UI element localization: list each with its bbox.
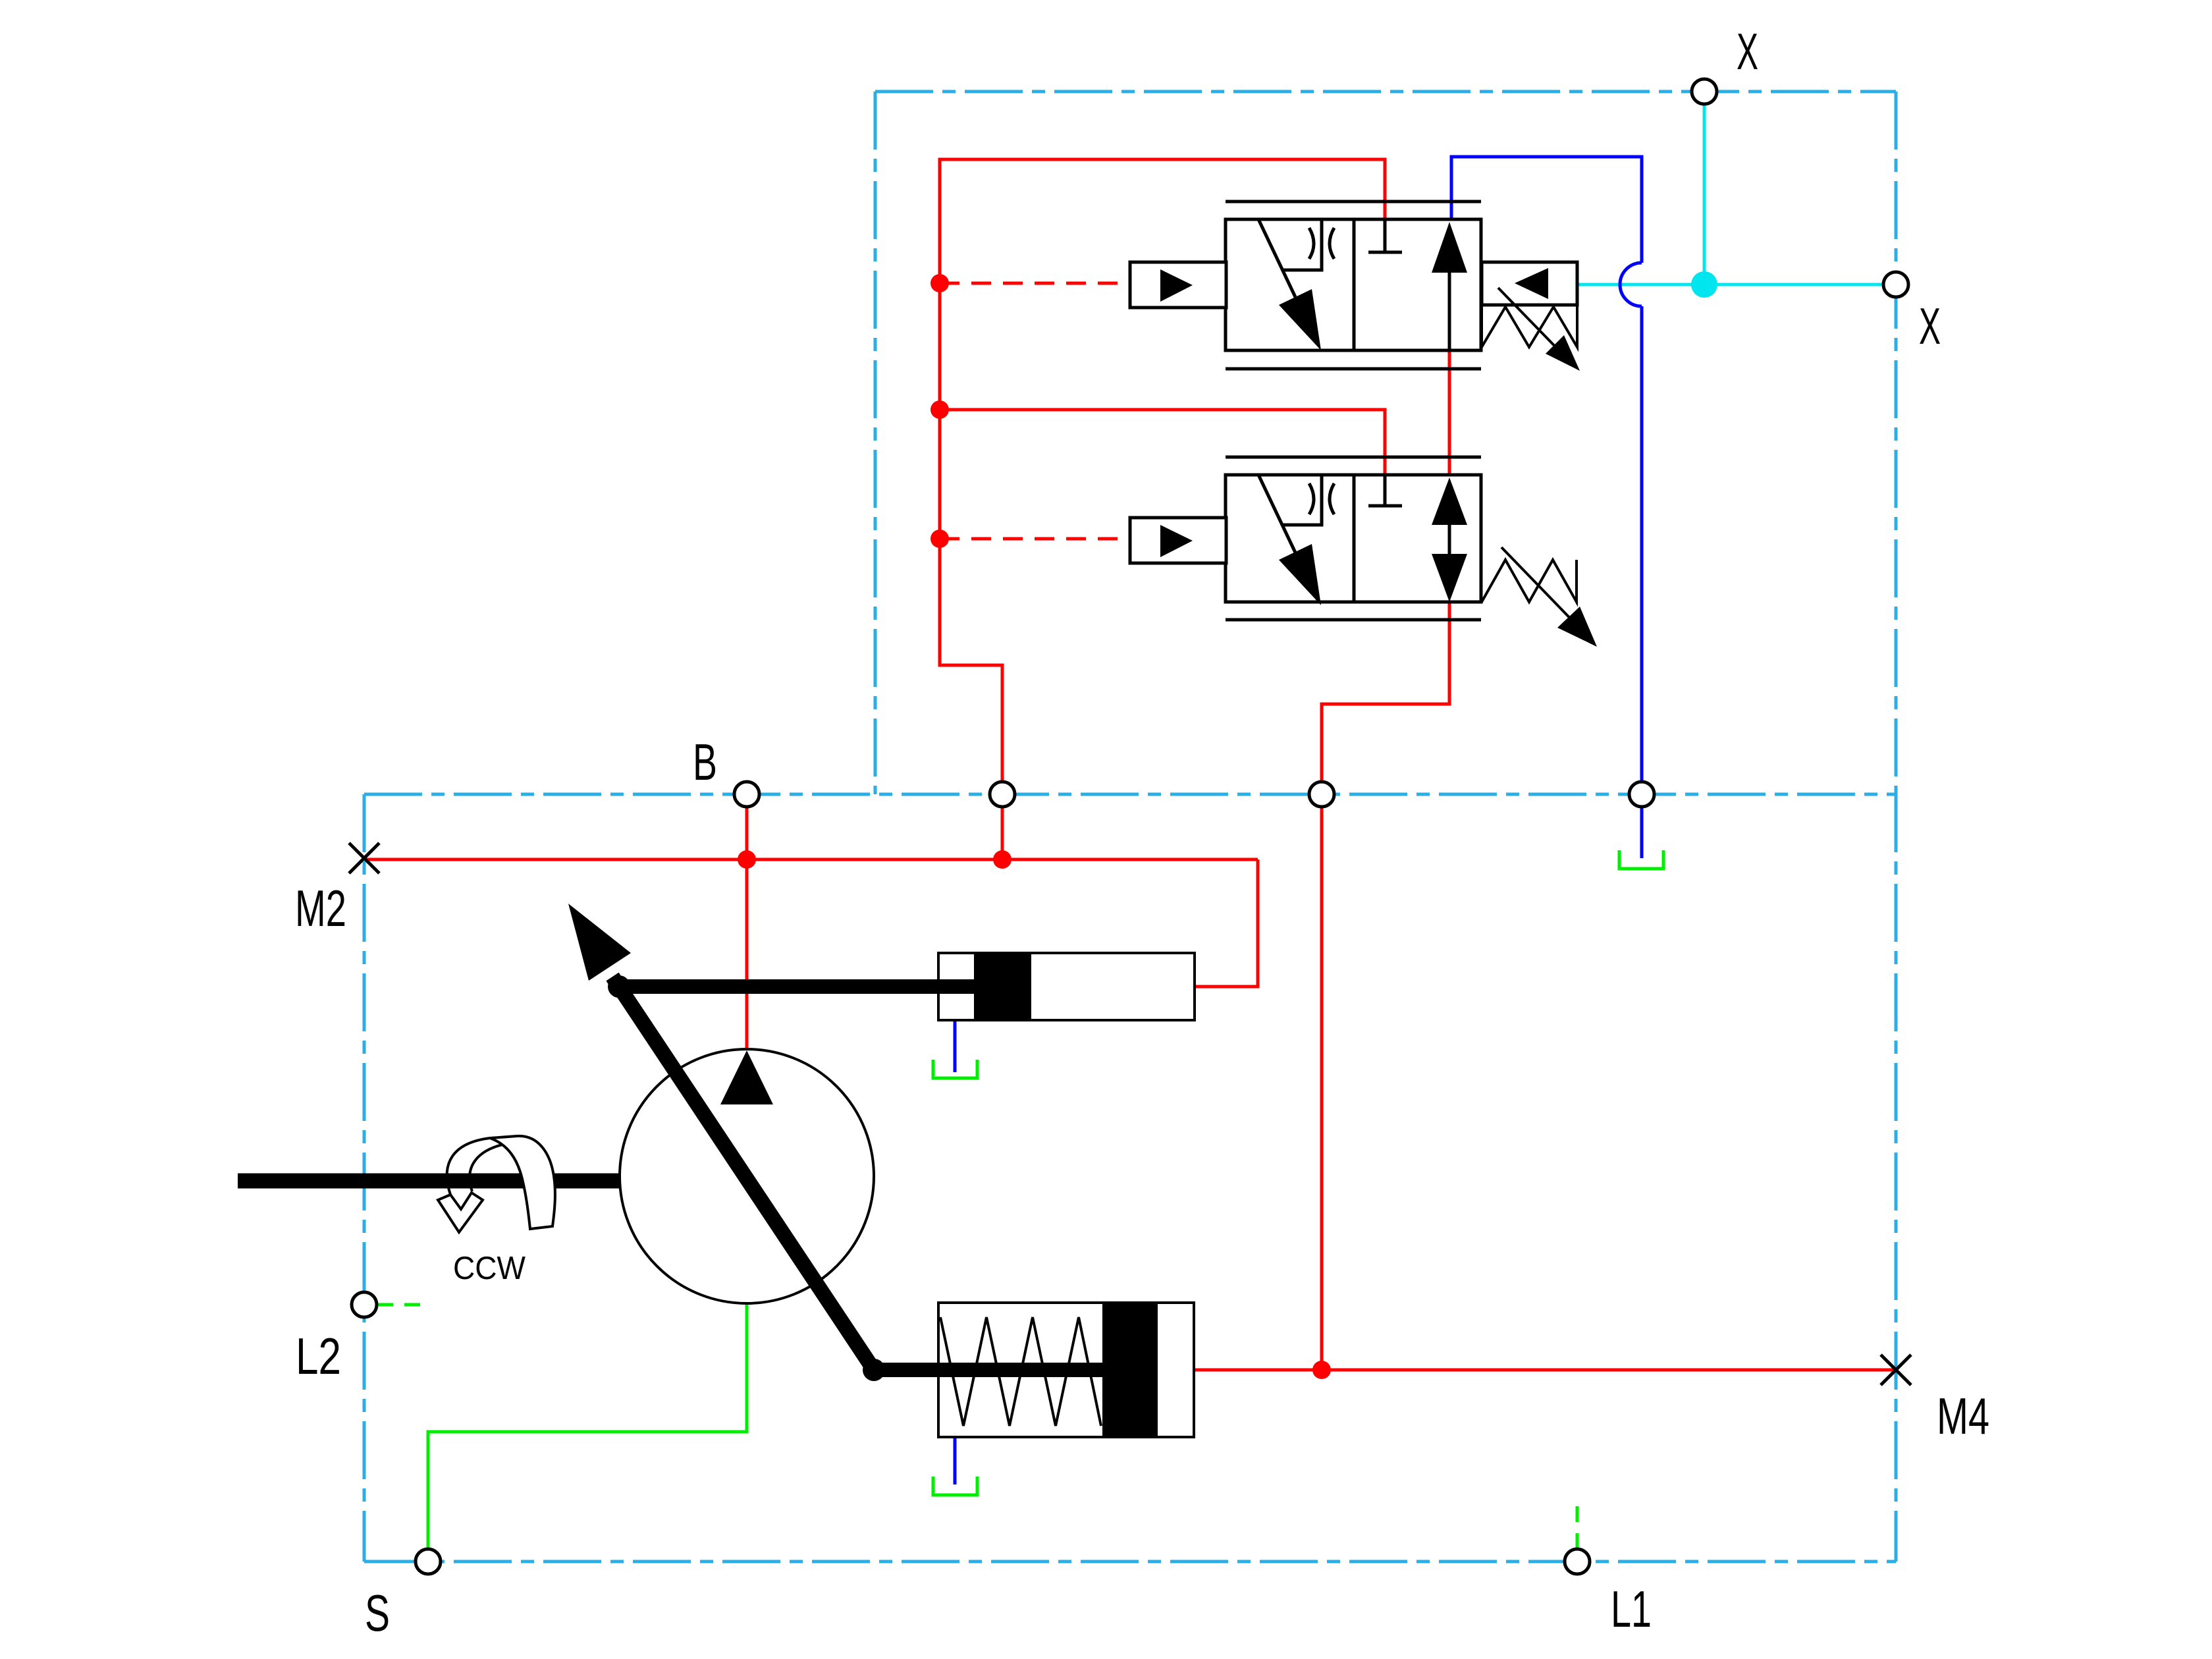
tank symbol under stroking piston bbox=[933, 1060, 977, 1078]
svg-text:L1: L1 bbox=[1611, 1580, 1652, 1638]
wire blue drain stub of destroking piston bbox=[954, 1438, 957, 1484]
valve V1 throttle arrowhead bbox=[1279, 289, 1321, 350]
stroking piston cylinder bbox=[938, 953, 1195, 1020]
wire red main pressure line M2 to actuator leg bbox=[364, 858, 1258, 861]
svg-text:M2: M2 bbox=[295, 879, 346, 937]
destroking piston rod bbox=[874, 1363, 1102, 1377]
wire red valve 2 outlet down to boundary bbox=[1322, 602, 1449, 782]
port B bbox=[734, 782, 759, 807]
svg-text:S: S bbox=[365, 1584, 390, 1642]
wire red port riser to main line bbox=[1001, 807, 1004, 859]
destroking piston spring bbox=[940, 1317, 1101, 1426]
port M2 cross bbox=[349, 843, 379, 873]
wire red destroking piston to port M4 bbox=[1194, 1369, 1896, 1372]
pump variable displacement unit P1 bbox=[620, 1049, 874, 1303]
valve V2 divider bbox=[1353, 475, 1356, 602]
solenoid pilot actuator of V2 bbox=[1130, 518, 1226, 563]
wire red main line down to stroking piston bbox=[1195, 859, 1258, 987]
svg-text:X: X bbox=[1737, 22, 1758, 80]
CCW ribbon left edge arcs (behind shaft) bbox=[447, 1138, 490, 1195]
valve V2 body bbox=[1226, 475, 1481, 602]
svg-text:M4: M4 bbox=[1937, 1387, 1989, 1445]
stroking piston rod bbox=[619, 979, 974, 994]
valve V2 throttle arrowhead bbox=[1279, 544, 1321, 605]
valve V1 body bbox=[1226, 219, 1481, 350]
svg-text:L2: L2 bbox=[296, 1327, 341, 1385]
pivot joint lower bbox=[863, 1359, 885, 1381]
wire red valve 1 outlet to valve 2 inlet bbox=[1448, 350, 1451, 475]
tank symbol under destroking piston bbox=[933, 1477, 977, 1495]
check/pilot box of V1 bbox=[1482, 262, 1577, 305]
wire green pump case drain to port S bbox=[428, 1303, 747, 1549]
valve V2 top rail bbox=[1226, 456, 1481, 459]
adjustment arrow of V2 bbox=[1501, 547, 1580, 629]
valve V1 bottom rail bbox=[1226, 367, 1481, 371]
valve V2 spool step bbox=[1283, 475, 1322, 525]
pump drive shaft bbox=[238, 1174, 620, 1189]
valve V1 spool step bbox=[1283, 219, 1322, 270]
wire blue valve 1 tank line bbox=[1451, 157, 1642, 858]
adjustment arrow of V1 bbox=[1498, 288, 1565, 357]
pivot joint upper bbox=[608, 975, 630, 998]
valve V2 double-arrow stem bbox=[1448, 525, 1451, 554]
valve V1 divider bbox=[1353, 219, 1356, 350]
svg-text:B: B bbox=[693, 733, 717, 791]
solenoid pilot actuator of V1 bbox=[1130, 262, 1226, 308]
junction red node at B riser bbox=[738, 850, 756, 869]
tank symbol under blue drain line bbox=[1619, 850, 1663, 869]
valve V1 vent T symbol bbox=[1368, 219, 1402, 252]
boundary upper pilot-control block (dash-dot) bbox=[875, 92, 1896, 794]
valve V2 down arrowhead bbox=[1432, 554, 1467, 602]
valve V1 flow up arrowhead bbox=[1432, 222, 1467, 273]
wire red dashed pilot to solenoid of valve 2 bbox=[940, 537, 1130, 541]
stroking piston bbox=[974, 953, 1031, 1020]
destroking piston bbox=[1102, 1303, 1158, 1437]
port X right bbox=[1883, 272, 1908, 297]
destroking piston cylinder bbox=[938, 1303, 1194, 1437]
valve V1 orifice arcs bbox=[1309, 228, 1314, 259]
junction cyan X node bbox=[1691, 271, 1717, 298]
wire cyan pilot X line bbox=[1577, 104, 1883, 285]
port (valve1 control) bbox=[990, 782, 1015, 807]
wire red port B to pump bbox=[745, 807, 749, 1050]
boundary main pump housing block (dash-dot) bbox=[364, 794, 1896, 1562]
valve V1 up-arrow stem bbox=[1448, 270, 1451, 350]
port (valve2 control) bbox=[1309, 782, 1334, 807]
wire blue drain stub of stroking piston bbox=[954, 1020, 957, 1072]
wire red supply to valve 2 top port bbox=[940, 410, 1385, 475]
wire red dashed pilot to solenoid of valve 1 bbox=[940, 282, 1130, 285]
spring of V2 bbox=[1482, 560, 1577, 602]
wire red control pressure down to destroking piston line bbox=[1320, 807, 1324, 1370]
valve V1 throttle diagonal bbox=[1258, 219, 1295, 297]
valve V1 proportional pressure compensator bbox=[1226, 202, 1481, 369]
spring of V1 bbox=[1482, 305, 1577, 347]
valve V2 throttle diagonal bbox=[1258, 475, 1295, 553]
swashplate control arm (thick diagonal with arrow) bbox=[612, 977, 874, 1370]
valve V2 vent T symbol bbox=[1368, 475, 1402, 506]
junction red node pilot 2 bbox=[931, 530, 949, 548]
valve V1 top rail bbox=[1226, 200, 1481, 204]
port S bbox=[416, 1549, 441, 1574]
svg-text:X: X bbox=[1919, 297, 1941, 355]
junction red node at destroking piston bbox=[1312, 1361, 1331, 1379]
port L1 bbox=[1565, 1549, 1590, 1574]
junction red node pilot 1 bbox=[931, 274, 949, 292]
port L2 bbox=[352, 1292, 377, 1317]
valve V2 bottom rail bbox=[1226, 618, 1481, 622]
valve V2 orifice arcs bbox=[1309, 483, 1314, 514]
valve V2 proportional flow compensator bbox=[1226, 457, 1481, 620]
port X top bbox=[1692, 79, 1717, 104]
CCW rotation ribbon band (over shaft) bbox=[490, 1136, 555, 1229]
port (tank drain) bbox=[1629, 782, 1654, 807]
junction red node at second riser bbox=[993, 850, 1012, 869]
port M4 cross bbox=[1881, 1355, 1911, 1385]
wire green dashed stub at port L2 bbox=[377, 1303, 431, 1307]
wire green dashed stub at port L1 bbox=[1576, 1496, 1579, 1549]
pump outlet flow triangle bbox=[720, 1050, 773, 1104]
valve V2 up arrowhead bbox=[1432, 477, 1467, 525]
CCW hollow arrowhead bbox=[438, 1193, 483, 1232]
wire red supply riser into pilot block bbox=[940, 159, 1385, 782]
junction red node pilot supply bbox=[931, 400, 949, 419]
svg-text:CCW: CCW bbox=[453, 1251, 526, 1286]
